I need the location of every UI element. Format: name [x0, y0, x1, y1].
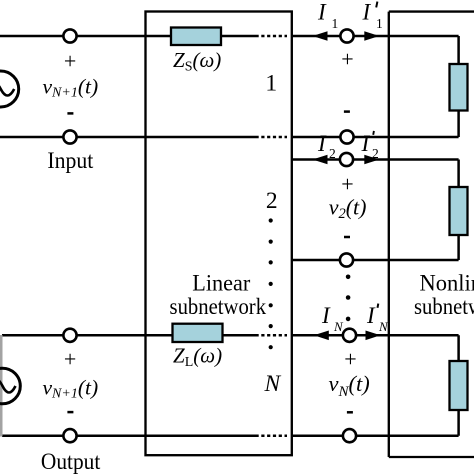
node input bottom: [63, 130, 76, 143]
arrow I2 left: [313, 155, 328, 165]
wire port1 top dotted segment: [256, 35, 288, 38]
label minus port2: [344, 236, 350, 239]
wire input return left segment: [0, 136, 256, 139]
svg-text:ZL(ω): ZL(ω): [173, 344, 222, 371]
svg-text:vN(t): vN(t): [329, 371, 370, 400]
svg-text:Output: Output: [41, 449, 101, 474]
resistor ZS: [171, 28, 221, 46]
resistor ZL: [173, 324, 223, 342]
svg-text:+: +: [64, 347, 76, 372]
wire portN top dotted segment: [256, 334, 288, 337]
wire output return left segment: [2, 434, 256, 437]
svg-text:v2(t): v2(t): [329, 194, 367, 222]
wire portN top right segment: [291, 335, 459, 361]
label minus portN: [347, 411, 353, 414]
svg-text:2: 2: [266, 188, 278, 214]
node port1 top: [340, 29, 353, 42]
svg-text:I: I: [317, 0, 327, 25]
svg-text:ZS(ω): ZS(ω): [173, 48, 221, 75]
svg-text:1: 1: [376, 16, 383, 31]
svg-text:+: +: [64, 48, 76, 73]
svg-text:Linear: Linear: [192, 270, 250, 295]
arrow IN left: [314, 331, 329, 341]
svg-text:N: N: [378, 319, 389, 334]
svg-text:+: +: [341, 46, 353, 71]
svg-text:+: +: [341, 172, 353, 197]
node port1 return: [340, 130, 353, 143]
svg-text:I: I: [362, 0, 372, 25]
svg-text:1: 1: [332, 16, 339, 31]
wire output left vertical (gray cropped): [0, 335, 3, 437]
wire port1 top mid segment: [221, 35, 256, 38]
label minus port1: [344, 110, 350, 113]
label minus output: [67, 411, 73, 414]
svg-text:I: I: [361, 131, 371, 156]
node portN return: [343, 429, 356, 442]
svg-text:2: 2: [329, 146, 336, 161]
wire port2 top segment: [291, 160, 459, 188]
wire port1 top right segment: [291, 36, 459, 64]
svg-text:2: 2: [372, 146, 379, 161]
wire input return dotted segment: [256, 136, 288, 139]
svg-text:subnetwork: subnetwork: [170, 294, 267, 319]
resistor RN nonlinear: [450, 361, 468, 410]
wire output top left segment: [2, 334, 173, 337]
wire output top mid segment: [223, 334, 256, 337]
svg-text:I: I: [321, 303, 331, 328]
source output VN+1: [0, 368, 20, 404]
resistor R1 nonlinear: [450, 64, 468, 111]
svg-text:Input: Input: [47, 148, 93, 173]
node output top: [63, 329, 76, 342]
svg-text:1: 1: [265, 70, 277, 96]
svg-text:I: I: [317, 131, 327, 156]
label minus input: [67, 112, 73, 115]
nonlinear subnetwork box: [389, 12, 474, 457]
linear subnetwork box: [146, 12, 292, 456]
wire port1 top left segment: [0, 35, 171, 38]
svg-text:N: N: [263, 371, 281, 397]
wire port2 return segment: [291, 235, 459, 260]
svg-text:I: I: [366, 303, 376, 328]
arrow I1 right: [364, 31, 379, 41]
ellipsis column node column: [346, 275, 351, 322]
wire portN return right segment: [291, 410, 459, 436]
node port2 return: [340, 253, 353, 266]
resistor R2 nonlinear: [450, 187, 468, 235]
svg-text:+: +: [344, 347, 356, 372]
arrow I1 left: [313, 31, 328, 41]
arrow IN right: [366, 331, 381, 341]
node output bottom: [63, 429, 76, 442]
wire port1 return right segment: [291, 111, 459, 138]
node input top: [63, 29, 76, 42]
node portN top: [343, 329, 356, 342]
source input VN+1: [0, 71, 19, 107]
ellipsis column linear box: [269, 218, 273, 349]
svg-text:subnetwork: subnetwork: [414, 294, 474, 319]
svg-text:Nonlinear: Nonlinear: [420, 270, 474, 295]
wire portN return dotted segment: [256, 434, 288, 437]
node port2 top: [340, 153, 353, 166]
arrow I2 right: [364, 155, 379, 165]
svg-text:N: N: [333, 319, 344, 334]
